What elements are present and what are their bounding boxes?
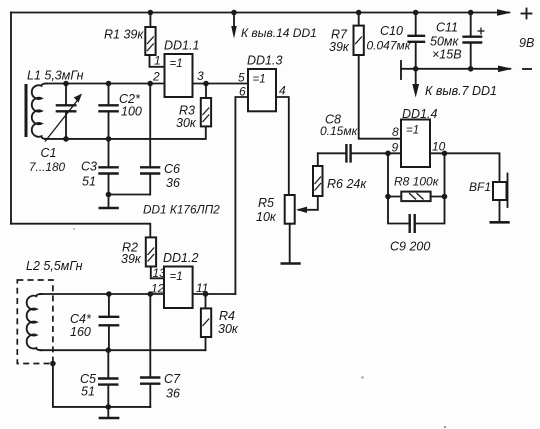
svg-text:DD1.1: DD1.1 [164, 39, 199, 53]
svg-text:39к: 39к [329, 40, 350, 54]
resistor R8 [394, 175, 440, 202]
capacitor C9 [388, 197, 445, 254]
resistor R6 [299, 153, 367, 210]
node pin10 / R8 / BF1 [442, 151, 448, 157]
transducer BF1 [469, 174, 508, 223]
svg-text:R4: R4 [219, 309, 235, 323]
svg-text:К выв.7 DD1: К выв.7 DD1 [425, 84, 497, 98]
wire tank2 top [40, 293, 164, 295]
svg-text:3: 3 [197, 69, 204, 83]
capacitor C8 [318, 113, 401, 163]
inductor L2 [27, 294, 42, 350]
svg-text:×15В: ×15В [432, 48, 462, 62]
resistor R1 [104, 13, 165, 67]
node tank1 top / C2 [106, 81, 112, 87]
resistor R3 [176, 84, 211, 131]
svg-text:7...180: 7...180 [29, 160, 66, 174]
wire R8 right to output [431, 153, 445, 196]
capacitor C4 [70, 294, 119, 350]
wire DD1.1 output pin3 [193, 83, 249, 85]
svg-text:9: 9 [392, 141, 399, 155]
wire speck noise [361, 376, 363, 378]
node tank1 bottom / C2-C3 [106, 136, 112, 142]
op-amp gate DD1.2 [163, 251, 198, 308]
node C3-C6 ground [106, 192, 112, 198]
svg-text:1: 1 [154, 54, 161, 68]
node V+ / R1 [148, 10, 154, 16]
svg-text:R5: R5 [258, 196, 274, 210]
svg-text:R8 100к: R8 100к [394, 175, 440, 189]
svg-text:0.15мк: 0.15мк [320, 124, 359, 138]
svg-text:10к: 10к [256, 210, 277, 224]
svg-text:К выв.14 DD1: К выв.14 DD1 [241, 26, 317, 40]
node V- / C10 / pin7 feed [413, 66, 419, 72]
node plus rail arrow [497, 9, 512, 16]
svg-text:160: 160 [70, 325, 91, 339]
ground at R5 [281, 262, 301, 265]
node pin9 / C8 / R8 [385, 151, 391, 157]
ground at C5 [99, 407, 120, 418]
svg-text:C10: C10 [380, 24, 403, 38]
capacitor C5 [80, 350, 119, 407]
capacitor C10 [367, 13, 426, 69]
node plus terminal label [522, 9, 532, 19]
svg-text:30к: 30к [176, 116, 197, 130]
inductor L2 shield dashed box [17, 280, 53, 364]
wire tank2 bottom [40, 349, 206, 351]
node C5-C7 ground [106, 404, 112, 410]
svg-text:C11: C11 [436, 21, 458, 35]
potentiometer R5 [256, 195, 307, 263]
svg-text:8: 8 [392, 125, 399, 139]
svg-text:30к: 30к [218, 322, 239, 336]
wire DD1.3 pin4 to R5 [276, 97, 289, 195]
node K vyv.14 DD1 [231, 13, 317, 41]
ground at BF1 [490, 221, 510, 224]
capacitor C6 [140, 84, 180, 195]
op-amp gate DD1.1 [164, 39, 199, 98]
ground at C3 [99, 195, 119, 209]
svg-text:C7: C7 [164, 372, 181, 386]
capacitor C2 [98, 84, 142, 139]
svg-text:R6 24к: R6 24к [327, 177, 367, 191]
wire plus rail top [11, 12, 509, 14]
node tank2 top / pin12 / C7 [148, 291, 154, 297]
node tank2 bottom / C4-C5 [106, 347, 112, 353]
svg-text:2: 2 [152, 70, 160, 84]
op-amp gate DD1.3 [247, 54, 282, 112]
wire minus rail [401, 61, 531, 79]
svg-text:100: 100 [121, 105, 142, 119]
node R8 right / C9 [442, 194, 448, 200]
wire tank1 top [45, 83, 165, 85]
svg-text:36: 36 [166, 387, 180, 401]
inductor L1 core [25, 84, 28, 137]
svg-text:C4*: C4* [70, 312, 92, 326]
svg-text:L2 5,5мГн: L2 5,5мГн [26, 259, 83, 273]
wire left border [10, 13, 12, 224]
node R8 left / C9 [385, 194, 391, 200]
svg-text:39к: 39к [121, 252, 142, 266]
svg-text:C9 200: C9 200 [390, 240, 430, 254]
svg-text:50мк: 50мк [430, 35, 459, 49]
wire DD1.4 output pin10 [430, 153, 500, 182]
capacitor C7 [140, 294, 181, 407]
svg-text:L1 5,3мГн: L1 5,3мГн [27, 69, 84, 83]
svg-text:5: 5 [238, 71, 245, 85]
resistor R7 [329, 13, 401, 139]
svg-text:=1: =1 [170, 58, 183, 70]
wire C3-C6 ground node [109, 194, 151, 196]
node K vyv.7 DD1 [412, 69, 497, 98]
node V+ / C11 [468, 10, 474, 16]
node V+ / C10 [413, 10, 419, 16]
node V+ / R7 [356, 10, 362, 16]
svg-text:C6: C6 [164, 162, 180, 176]
node tank1 top / C1 [63, 81, 69, 87]
inductor L1 [32, 84, 47, 139]
capacitor C3 [81, 139, 119, 195]
node tank1 bottom / C1 [63, 136, 69, 142]
svg-text:0.047мк: 0.047мк [367, 39, 412, 53]
svg-text:C3: C3 [81, 160, 97, 174]
wire tank1 bottom [45, 126, 206, 138]
node V+ / pin14 feed [231, 10, 237, 16]
op-amp gate DD1.4 [401, 107, 437, 167]
resistor R2 [121, 237, 164, 278]
node pin3 / R3 [203, 81, 209, 87]
svg-text:DD1.2: DD1.2 [163, 251, 198, 265]
wire C7 bottom to C5 [108, 406, 150, 408]
capacitor C1 variable [29, 84, 82, 175]
svg-text:51: 51 [81, 385, 95, 399]
wire L2 shield to ground [53, 364, 108, 407]
wire DD1.2 pin11 output [193, 293, 236, 295]
svg-text:36: 36 [166, 176, 180, 190]
capacitor C11 electrolytic [430, 13, 485, 69]
node tank1 top / pin2 / C6 [147, 81, 153, 87]
wire R2 supply [11, 224, 150, 238]
resistor R4 [201, 294, 239, 350]
svg-text:R1 39к: R1 39к [104, 28, 144, 42]
node V- / C11 [468, 66, 474, 72]
wire DD1.4 pin9 to R8 [388, 153, 401, 196]
svg-text:51: 51 [82, 175, 96, 189]
svg-text:=1: =1 [406, 125, 419, 137]
svg-text:BF1: BF1 [469, 180, 491, 194]
wire DD1.3 pin6 to DD1.2 pin11 [235, 97, 248, 294]
svg-text:4: 4 [279, 84, 286, 98]
svg-text:C1: C1 [41, 146, 57, 160]
svg-text:DD1 К176ЛП2: DD1 К176ЛП2 [143, 203, 220, 217]
node tank2 top / C4 [106, 291, 112, 297]
svg-text:DD1.3: DD1.3 [247, 54, 282, 68]
svg-text:=1: =1 [170, 271, 183, 283]
node pin11 / R4 [203, 291, 209, 297]
svg-text:9В: 9В [519, 36, 534, 50]
node L2 shield [50, 361, 56, 367]
svg-text:=1: =1 [253, 74, 266, 86]
svg-text:DD1.4: DD1.4 [402, 107, 437, 121]
